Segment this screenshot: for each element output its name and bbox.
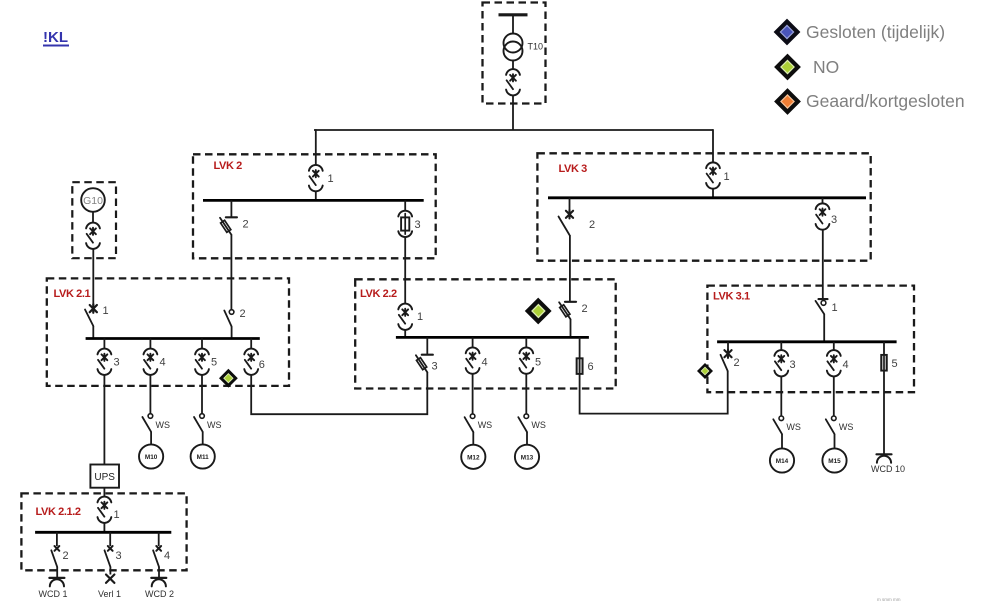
svg-text:3: 3 (114, 357, 120, 369)
svg-text:M12: M12 (467, 454, 480, 461)
motor M15 (822, 448, 846, 472)
NO diamond LVK3.1 (697, 363, 713, 379)
busbar LVK 2.1 (86, 337, 260, 340)
switch LVK2.1.2-4 (153, 546, 161, 567)
svg-text:WS: WS (839, 422, 854, 432)
breaker LVK2.1-5 (195, 349, 209, 375)
svg-text:Verl 1: Verl 1 (98, 589, 121, 599)
motor M14 (770, 448, 794, 472)
switch LVK2.1-1 (85, 304, 97, 326)
wire WS to M14 (781, 434, 783, 449)
svg-text:T10: T10 (528, 42, 544, 52)
switch LVK2.1-2 (224, 310, 234, 327)
svg-text:WCD 2: WCD 2 (145, 589, 174, 599)
busbar LVK 3 (548, 196, 866, 199)
wire busbar to breaker 4 (833, 342, 835, 351)
wire busbar to switch 2 (56, 532, 58, 546)
breaker G10 (86, 223, 100, 249)
breaker LVK2.1-3 (98, 349, 112, 375)
wire LVK2.2-2 to busbar (570, 319, 572, 337)
svg-text:LVK 3.1: LVK 3.1 (713, 291, 750, 303)
wire busbar to breaker 4 (472, 337, 474, 348)
wire busbar to switch 4 (158, 532, 160, 546)
fuse LVK2.2-6 (577, 358, 583, 374)
svg-text:M10: M10 (145, 454, 158, 461)
svg-text:3: 3 (415, 219, 421, 231)
svg-text:LVK 2.2: LVK 2.2 (360, 288, 397, 300)
wire busbar to breaker 6 (250, 339, 252, 350)
switch LVK2.1.2-3 (105, 546, 113, 567)
switch LVK3.1-1 (816, 299, 828, 314)
dashed enclosure LVK 2.1.2 (21, 493, 186, 570)
svg-text:LVK 3: LVK 3 (559, 163, 588, 175)
lamp Verl 1 (106, 575, 114, 583)
socket WCD 1 (49, 578, 64, 587)
wire busbar to breaker 3 (822, 198, 824, 204)
svg-text:WS: WS (207, 420, 222, 430)
WS switch M14 (773, 416, 783, 434)
wire G10 breaker to LVK2.1 feeder 1 (92, 249, 94, 306)
svg-text:Geaard/kortgesloten: Geaard/kortgesloten (806, 91, 965, 111)
breaker LVK3-3 (816, 203, 830, 229)
wire WS to M10 (150, 432, 152, 445)
UPS box (90, 465, 119, 488)
wire busbar to fuse 6 (579, 337, 581, 358)
WS switch M15 (826, 416, 836, 434)
motor M11 (191, 444, 215, 468)
title !KL (43, 29, 69, 46)
wire breaker 4 to WS (149, 375, 151, 414)
wire LVK2.1-1 to busbar (92, 326, 94, 339)
wire LVK3-2 down to LVK2.2 feeder 2 (569, 235, 571, 302)
svg-text:3: 3 (790, 359, 796, 371)
wire T10 to distribution node (512, 95, 514, 130)
NO diamond LVK2.1 (219, 369, 238, 388)
transformer T10 (504, 34, 523, 61)
wire WS to M11 (202, 432, 204, 445)
breaker LVK3.1-3 (774, 350, 788, 376)
svg-text:M13: M13 (521, 454, 534, 461)
breaker LVK2.2-1 (398, 304, 412, 330)
wire LVK3-3 down to LVK3.1 incomer (822, 229, 824, 299)
withdrawable fuse LVK2-3 (398, 211, 412, 237)
motor M10 (139, 444, 163, 468)
wire busbar to switch 2 (727, 342, 729, 350)
wire switch 3 to lamp (109, 567, 111, 575)
supply source bar (499, 13, 528, 16)
dashed enclosure G10 (72, 182, 116, 258)
svg-text:4: 4 (482, 357, 488, 369)
wire busbar to fuse-switch 2 (230, 200, 232, 217)
wire WS to M12 (472, 432, 474, 445)
wire breaker 5 to WS (201, 375, 203, 414)
wire busbar to breaker 5 (525, 337, 527, 348)
svg-text:LVK 2: LVK 2 (214, 160, 243, 172)
wire source bar to transformer (512, 15, 514, 34)
switch LVK2.1.2-2 (51, 546, 59, 567)
socket WCD 2 (151, 578, 166, 587)
svg-text:5: 5 (211, 357, 217, 369)
WS switch M10 (142, 414, 152, 432)
wire breaker 3 to UPS (103, 375, 105, 465)
legend NO diamond (774, 54, 801, 81)
svg-text:2: 2 (589, 219, 595, 231)
switch LVK3.1-2 (721, 350, 732, 372)
svg-text:M15: M15 (828, 458, 841, 465)
svg-text:4: 4 (160, 357, 166, 369)
svg-text:m smm mm: m smm mm (877, 597, 901, 602)
breaker LVK2.2-4 (466, 347, 480, 373)
wire busbar to switch 2 (569, 198, 571, 211)
svg-text:4: 4 (843, 359, 849, 371)
wire busbar to fuse 5 (883, 342, 885, 355)
wire breaker 4 to WS (833, 376, 835, 416)
svg-text:M11: M11 (197, 454, 210, 461)
wire LVK2.1-2 to busbar (231, 327, 233, 339)
WS switch M13 (518, 414, 528, 432)
wire breaker 4 to WS (472, 373, 474, 414)
svg-text:3: 3 (831, 214, 837, 226)
svg-text:6: 6 (259, 359, 265, 371)
legend earthed/shorted diamond (774, 88, 801, 115)
wire distribution horizontal (314, 129, 713, 131)
breaker LVK2.1.2-1 (98, 497, 112, 523)
dashed enclosure LVK 3.1 (707, 286, 914, 393)
legend closed (temporary) diamond (774, 19, 801, 46)
wire busbar to breaker 3 (780, 342, 782, 351)
wire switch 2 to WCD 1 (56, 567, 58, 578)
breaker LVK2.2-5 (519, 347, 533, 373)
svg-text:WS: WS (156, 420, 171, 430)
wire LVK3.1-1 to busbar (823, 314, 825, 342)
svg-text:LVK 2.1.2: LVK 2.1.2 (36, 506, 81, 518)
wire LVK2-1 to busbar (315, 191, 317, 201)
breaker T10 outgoing (506, 69, 520, 95)
busbar LVK 3.1 (717, 340, 897, 343)
fuse-switch LVK2.2-3 (416, 355, 433, 373)
svg-text:1: 1 (724, 171, 730, 183)
dashed enclosure LVK 3 (537, 153, 870, 260)
wire WS to M15 (834, 434, 836, 449)
svg-text:G10: G10 (83, 195, 103, 207)
svg-text:Gesloten (tijdelijk): Gesloten (tijdelijk) (806, 22, 945, 42)
breaker LVK3-1 (706, 162, 720, 188)
wire G10 to breaker (92, 213, 94, 224)
breaker LVK2-1 (309, 165, 323, 191)
fuse-switch LVK2-2 (220, 217, 237, 235)
svg-text:!KL: !KL (43, 29, 68, 46)
svg-text:5: 5 (535, 357, 541, 369)
motor M13 (515, 445, 539, 469)
svg-text:WS: WS (478, 420, 493, 430)
wire breaker 5 to WS (525, 373, 527, 414)
WS switch M12 (465, 414, 475, 432)
busbar LVK 2 (203, 199, 424, 202)
dashed enclosure LVK 2.2 (355, 279, 616, 388)
wire LVK2-3 down to LVK2.2 incomer (404, 237, 406, 304)
wire busbar to breaker 5 (201, 339, 203, 350)
svg-text:3: 3 (432, 361, 438, 373)
svg-text:2: 2 (582, 303, 588, 315)
svg-text:1: 1 (417, 311, 423, 323)
svg-text:M14: M14 (776, 458, 789, 465)
busbar LVK 2.1.2 (35, 531, 171, 534)
generator G10 (81, 188, 105, 212)
wire breaker to busbar (103, 523, 105, 533)
svg-text:2: 2 (243, 219, 249, 231)
dashed enclosure LVK 2 (193, 154, 436, 258)
wire WS to M13 (526, 432, 528, 445)
wire busbar to fuse 3 (404, 200, 406, 211)
breaker LVK3.1-4 (827, 350, 841, 376)
svg-text:4: 4 (164, 550, 170, 562)
wire LVK2.2-1 to busbar (404, 330, 406, 338)
svg-text:LVK 2.1: LVK 2.1 (54, 288, 91, 300)
svg-text:WS: WS (531, 420, 546, 430)
svg-text:2: 2 (240, 308, 246, 320)
wire link LVK2.2-6 to LVK3.1-2 (580, 371, 728, 414)
svg-text:1: 1 (103, 305, 109, 317)
dashed enclosure LVK 2.1 (47, 278, 289, 386)
svg-text:WCD 10: WCD 10 (871, 464, 905, 474)
socket WCD 10 (877, 454, 892, 463)
wire busbar to switch 3 (109, 532, 111, 546)
svg-text:UPS: UPS (94, 472, 115, 483)
busbar LVK 2.2 (396, 336, 589, 339)
wire fuse 5 to WCD 10 (883, 371, 885, 455)
wire switch 4 to WCD 2 (158, 567, 160, 578)
wire busbar to breaker 4 (149, 339, 151, 350)
svg-text:WCD 1: WCD 1 (39, 589, 68, 599)
dashed enclosure T10 (483, 3, 546, 104)
svg-text:NO: NO (813, 57, 839, 77)
wire link LVK2.1-6 to LVK2.2-3 (251, 372, 427, 414)
breaker LVK2.1-6 (244, 349, 258, 375)
wire transformer to breaker (512, 61, 514, 70)
svg-text:6: 6 (588, 361, 594, 373)
wire breaker 3 to WS (780, 376, 782, 416)
wire busbar to fuse-switch 3 (426, 337, 428, 354)
wire LVK2-2 down to LVK2.1 feeder 2 (230, 235, 232, 310)
fuse-switch LVK2.2-2 (559, 302, 576, 320)
wire drop to LVK 2 (315, 129, 317, 165)
wire UPS to LVK2.1.2 breaker (103, 488, 105, 497)
svg-text:1: 1 (832, 302, 838, 314)
svg-text:1: 1 (114, 509, 120, 521)
fuse LVK3.1-5 (881, 355, 887, 371)
svg-text:5: 5 (892, 358, 898, 370)
breaker LVK2.1-4 (144, 349, 158, 375)
WS switch M11 (194, 414, 204, 432)
wire busbar to breaker 3 (103, 339, 105, 350)
motor M12 (461, 445, 485, 469)
svg-text:2: 2 (734, 357, 740, 369)
wire drop to LVK 3 (712, 129, 714, 162)
switch LVK3-2 (559, 210, 574, 235)
wire LVK3-1 to busbar (712, 188, 714, 198)
svg-text:WS: WS (786, 422, 801, 432)
svg-text:2: 2 (63, 550, 69, 562)
NO diamond LVK2.2 (525, 298, 552, 325)
svg-text:3: 3 (116, 550, 122, 562)
svg-text:1: 1 (328, 173, 334, 185)
